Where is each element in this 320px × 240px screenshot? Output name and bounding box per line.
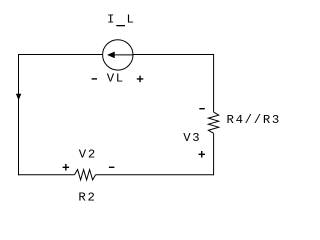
label plus left of R2 xyxy=(63,164,70,171)
label plus below R4//R3 xyxy=(199,151,206,158)
label plus right of VL xyxy=(137,76,144,83)
svg-text:I: I xyxy=(107,13,116,27)
wire left vertical xyxy=(18,54,20,175)
resistor R2 zigzag xyxy=(75,170,96,180)
svg-text:V3: V3 xyxy=(183,131,201,145)
wire top-left segment xyxy=(18,54,103,56)
wire right vertical upper xyxy=(213,54,215,112)
wire right vertical lower xyxy=(213,133,215,175)
wire bottom-right segment xyxy=(96,174,214,176)
label minus above R4//R3 xyxy=(199,108,205,109)
current source arrow shaft xyxy=(114,54,133,56)
resistor R4//R3 zigzag xyxy=(208,112,218,133)
svg-text:R2: R2 xyxy=(78,190,96,204)
current source arrowhead xyxy=(108,52,115,58)
svg-text:VL: VL xyxy=(107,71,125,85)
svg-text:R4//R3: R4//R3 xyxy=(227,113,281,127)
wire bottom-left segment xyxy=(18,174,75,176)
svg-text:L: L xyxy=(127,13,136,27)
label minus left of VL xyxy=(92,78,97,79)
wire top-right segment xyxy=(133,54,214,56)
svg-text:V2: V2 xyxy=(79,148,97,162)
current direction arrowhead on left wire xyxy=(16,94,21,100)
current source I_L circle xyxy=(103,40,133,70)
label minus right of R2 xyxy=(109,167,115,168)
